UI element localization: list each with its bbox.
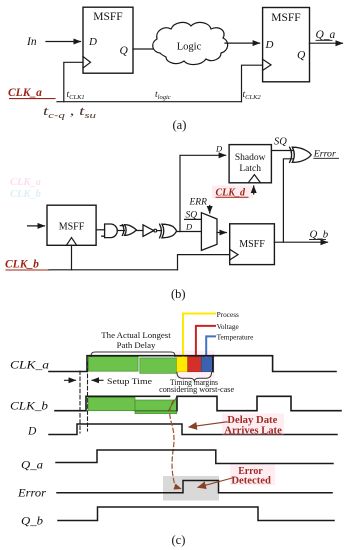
inverter bubble G3 (154, 229, 157, 232)
svg-text:Temperature: Temperature (217, 332, 254, 341)
svg-text:Process: Process (217, 310, 239, 319)
gate G2 XOR (120, 225, 136, 236)
svg-text:Voltage: Voltage (217, 322, 239, 331)
underbrace timing margins (177, 373, 212, 381)
svg-text:Error: Error (17, 486, 46, 500)
wire G1 to G2 (117, 230, 124, 232)
wire CLK_d arrow (253, 186, 255, 194)
wire cloud to U2 D (225, 42, 260, 44)
svg-text:D: D (185, 222, 193, 232)
pink tint behind margin blocks (175, 351, 215, 379)
svg-text:Path Delay: Path Delay (117, 340, 156, 350)
annotation setup time dashed line 1 (79, 371, 81, 433)
wire CLK to U2 clock (242, 65, 263, 102)
annotation error detected pink bg (230, 465, 275, 486)
mux M1 (201, 213, 217, 251)
process margin yellow block (177, 357, 188, 372)
svg-text:MSFF: MSFF (59, 222, 85, 233)
signal CLK_a green margin 1 (88, 357, 138, 372)
svg-text:tc-q , tsu: tc-q , tsu (43, 104, 96, 120)
gate G1 AND (102, 224, 118, 238)
error detected leader arrow (198, 478, 234, 488)
svg-text:Shadow: Shadow (235, 153, 266, 163)
svg-text:Q_a: Q_a (21, 460, 43, 472)
gate G3 buffer (143, 225, 154, 237)
wire CLK to U1 clock (64, 62, 83, 101)
wire G3 to G4 (157, 230, 162, 232)
wire G4 to mux D (177, 231, 202, 233)
dashed trace arrowhead (173, 484, 181, 490)
annotation delay date pink bg (222, 414, 284, 437)
output Q_b (274, 241, 327, 243)
gate X1 XOR error (290, 147, 312, 162)
svg-text:Setup Time: Setup Time (107, 377, 152, 386)
baseline under green (135, 410, 177, 412)
wire XOR lower input riser (283, 159, 293, 242)
annotation setup time dashed line 2 (87, 362, 89, 431)
flip-flop U2 MSFF (263, 8, 310, 82)
svg-text:(a): (a) (173, 118, 187, 132)
signal Q_a waveform (56, 450, 333, 464)
signal CLK_a green margin 2 (140, 358, 177, 373)
wire CLK_b trunk (49, 269, 178, 271)
svg-text:D: D (27, 426, 37, 438)
flip-flop U3 MSFF (47, 205, 96, 245)
svg-text:CLK_b: CLK_b (5, 259, 39, 271)
wire CLK_b to U5 clock (178, 255, 230, 270)
signal Q_b waveform (58, 507, 334, 521)
wire node to latch D riser (180, 155, 226, 231)
dashed trace path (170, 401, 176, 487)
legend Voltage (196, 326, 215, 357)
CLK_b diagonal edge (169, 397, 177, 411)
signal CLK_b waveform (55, 396, 341, 410)
svg-text:MSFF: MSFF (239, 239, 265, 250)
temperature margin blue block (201, 357, 212, 372)
svg-text:Detected: Detected (231, 476, 271, 487)
wire CLK_a trunk (57, 101, 242, 103)
svg-text:The Actual Longest: The Actual Longest (101, 330, 171, 340)
signal CLK_b green margin 2 (135, 400, 177, 414)
wire U1 Q to cloud (133, 48, 154, 50)
svg-text:CLK_a: CLK_a (10, 360, 49, 372)
net CLK_d label (212, 186, 253, 199)
setup time left arrow (92, 379, 103, 381)
svg-text:CLK_b: CLK_b (10, 189, 41, 200)
delay date leader arrow (189, 422, 227, 427)
flip-flop U1 MSFF (83, 7, 133, 73)
svg-text:Delay Date: Delay Date (227, 415, 277, 426)
svg-text:tCLK2: tCLK2 (243, 90, 262, 101)
wire mux out to U5 D (217, 232, 226, 234)
svg-text:SQ: SQ (274, 137, 287, 148)
svg-text:D: D (215, 144, 223, 154)
bracket longest path (91, 352, 175, 357)
wire SQ stub to mux (185, 218, 202, 220)
svg-text:Q_b: Q_b (310, 228, 329, 240)
svg-text:Latch: Latch (239, 164, 261, 174)
svg-text:Q_a: Q_a (316, 29, 336, 41)
svg-text:CLK_a: CLK_a (10, 177, 41, 188)
svg-text:ERR: ERR (189, 198, 208, 208)
svg-text:tlogic: tlogic (155, 90, 171, 101)
wire CLK_b to U3 clock (71, 245, 73, 269)
svg-text:(b): (b) (171, 287, 186, 301)
wire G2 to G3 (137, 230, 144, 232)
wire input to U3 (28, 225, 45, 227)
margin end divider (212, 356, 214, 372)
wire U3 to G1 (96, 229, 105, 231)
svg-text:In: In (26, 36, 37, 48)
signal D waveform (49, 424, 337, 435)
signal CLK_a waveform (49, 356, 336, 372)
gray highlight box (163, 476, 219, 501)
svg-text:MSFF: MSFF (271, 12, 300, 24)
flip-flop U5 MSFF (230, 224, 275, 265)
svg-text:Arrives Late: Arrives Late (224, 426, 282, 437)
svg-text:Q: Q (297, 50, 306, 62)
signal Error waveform (57, 481, 332, 493)
svg-text:D: D (88, 36, 97, 48)
svg-text:MSFF: MSFF (93, 11, 122, 23)
voltage margin red block (188, 357, 202, 372)
legend Temperature (206, 336, 215, 356)
svg-text:Q: Q (120, 45, 129, 57)
svg-text:considering worst-case: considering worst-case (159, 385, 234, 394)
signal CLK_b green margin 1 (88, 397, 135, 410)
svg-text:CLK_a: CLK_a (8, 87, 42, 99)
svg-text:(c): (c) (172, 533, 186, 547)
wire latch SQ to XOR (271, 150, 293, 152)
svg-text:tCLK1: tCLK1 (67, 90, 85, 101)
setup time right arrow (65, 379, 76, 381)
svg-text:Q_b: Q_b (21, 516, 43, 528)
svg-text:D: D (265, 39, 274, 51)
svg-text:Logic: Logic (177, 42, 202, 53)
logic cloud (153, 22, 228, 64)
legend Process (183, 314, 215, 357)
svg-text:CLK_b: CLK_b (10, 401, 48, 413)
wire ERR select arrow (209, 206, 211, 214)
gate G4 XOR (160, 224, 177, 238)
latch U4 Shadow Latch (229, 145, 271, 183)
